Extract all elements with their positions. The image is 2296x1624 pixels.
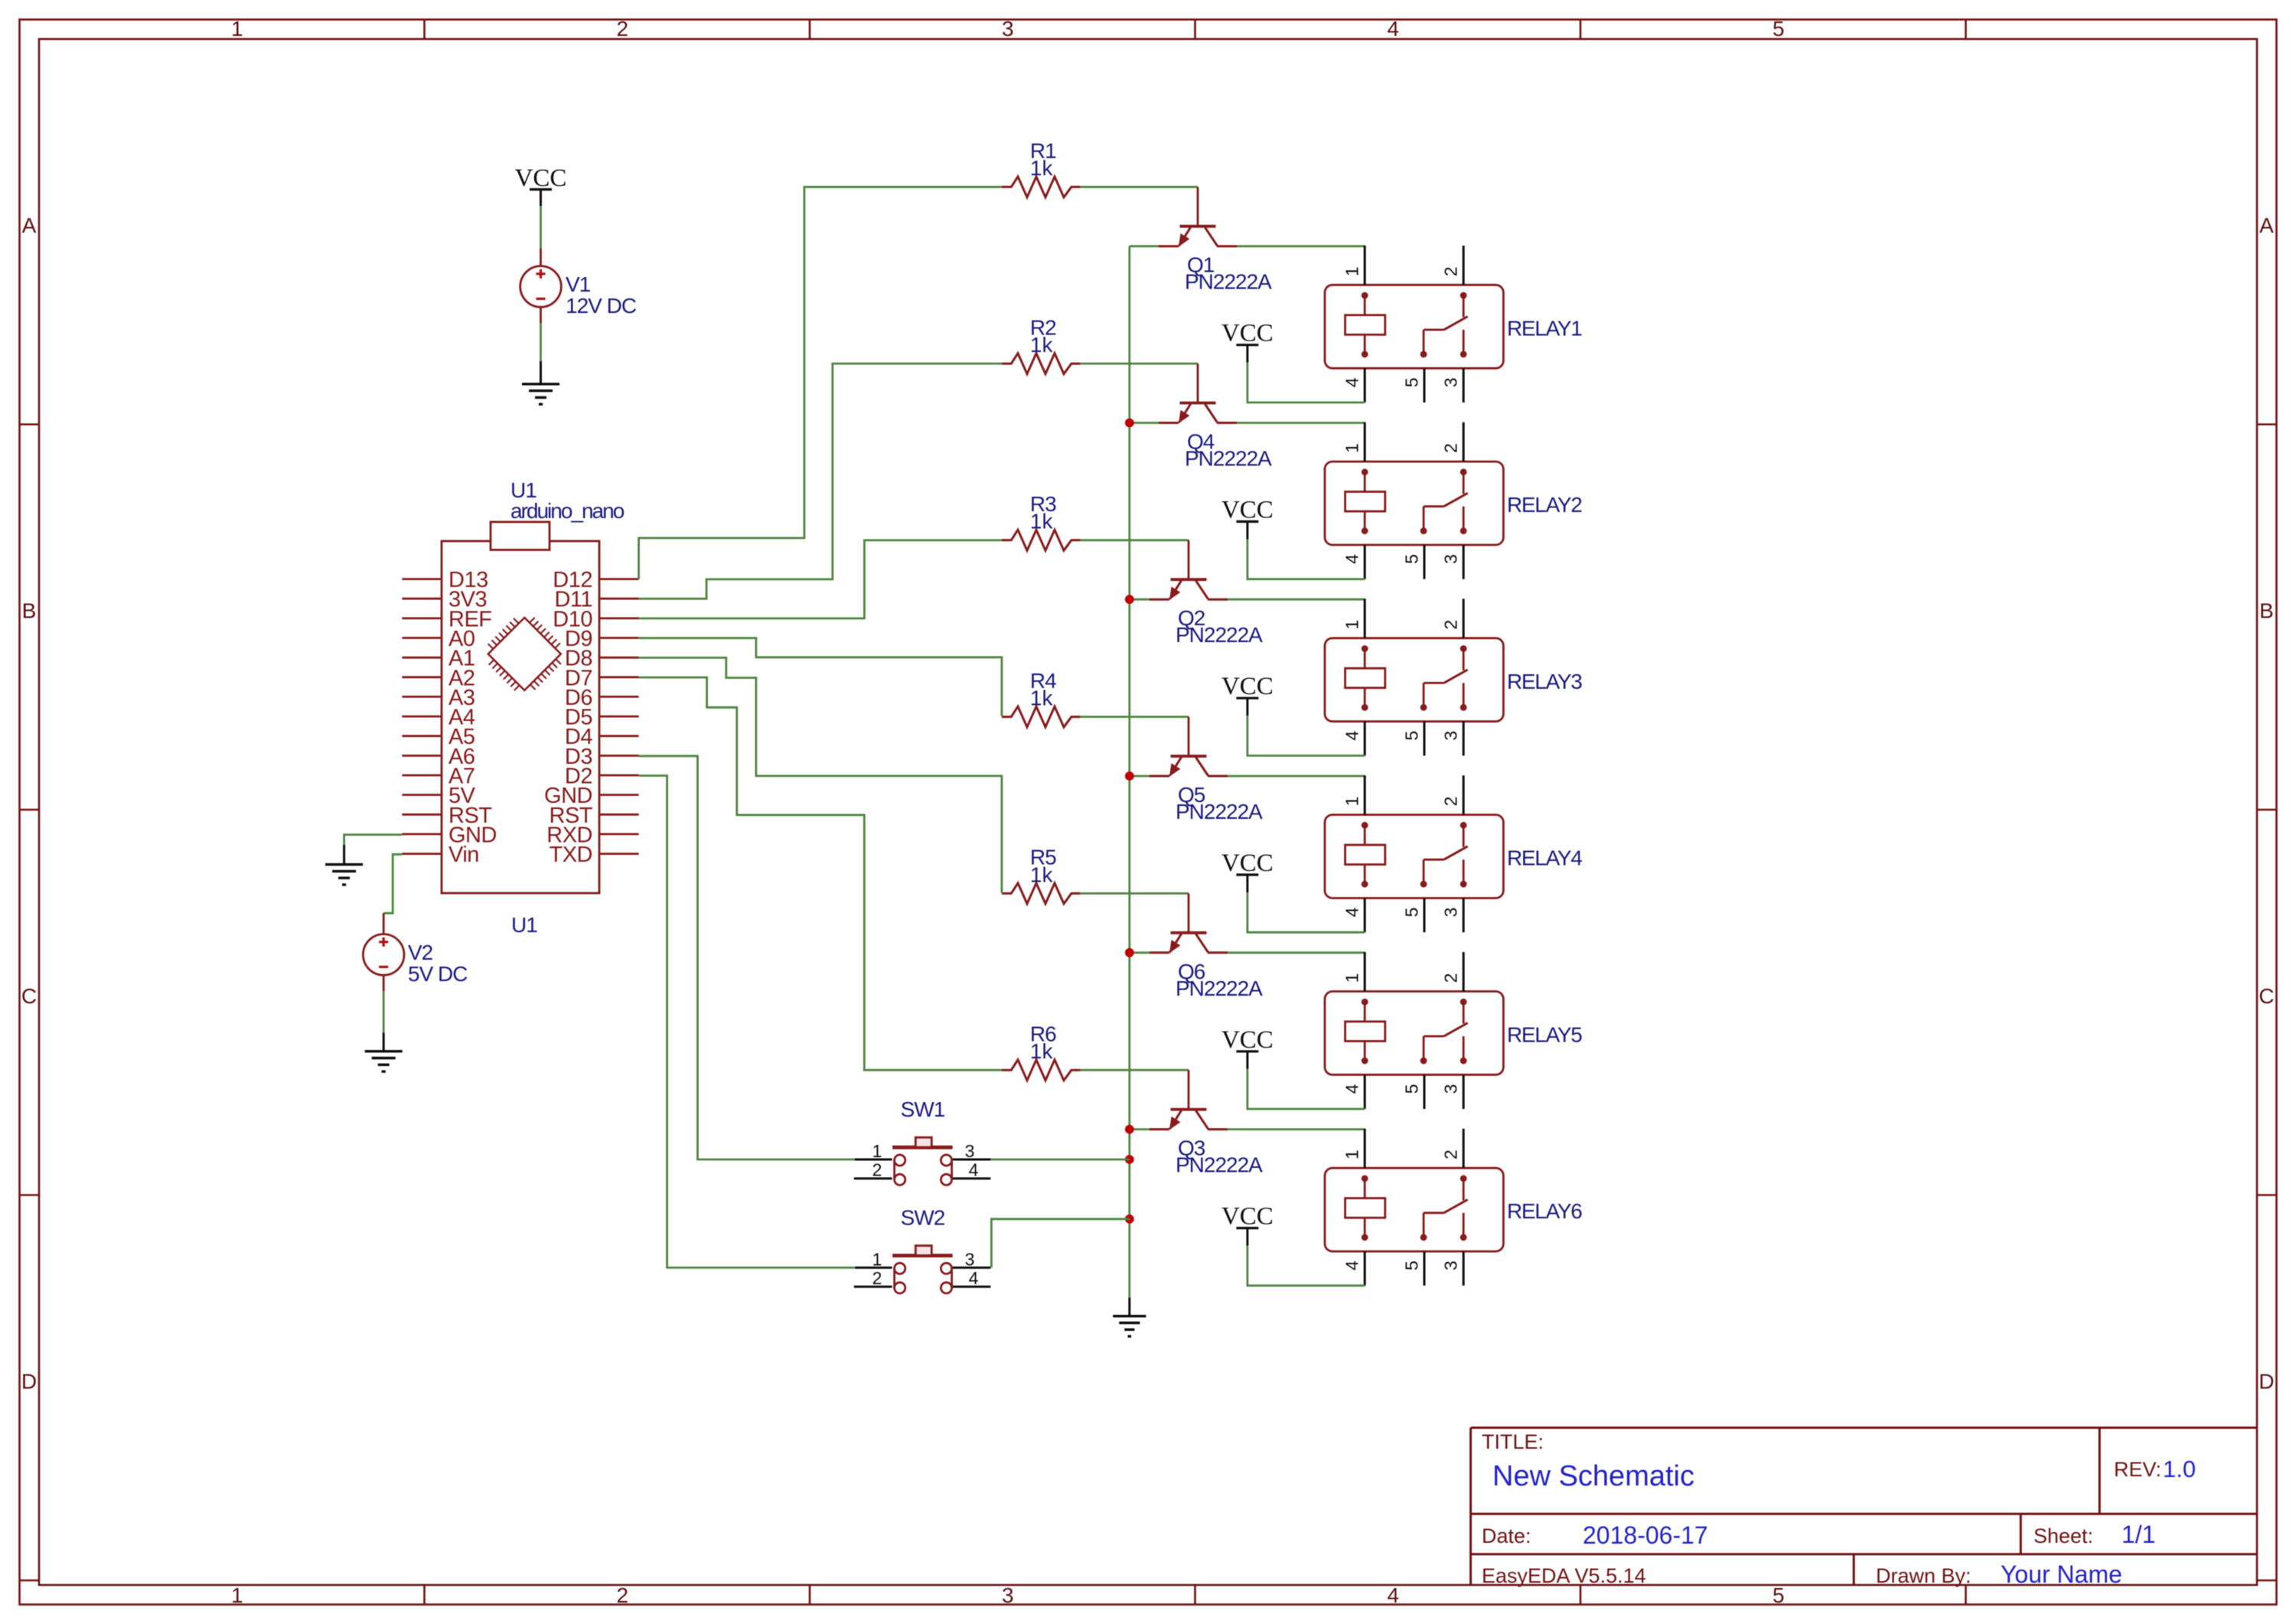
net flag VCC (relay 6) [1221, 1203, 1274, 1246]
RELAY1 pin 2 [1463, 246, 1465, 285]
svg-text:2: 2 [1441, 1150, 1461, 1159]
svg-text:2: 2 [872, 1160, 882, 1180]
svg-text:3: 3 [1441, 1260, 1461, 1270]
junction SW1 pin 3 [1125, 1155, 1134, 1164]
junction Q2 emitter [1125, 595, 1134, 604]
wire VCC to RELAY3 pin 4 [1247, 716, 1365, 755]
wire D8 to R5 [639, 657, 1002, 892]
svg-text:4: 4 [1342, 1084, 1362, 1094]
relay RELAY6 [1325, 1168, 1503, 1251]
svg-text:2018-06-17: 2018-06-17 [1583, 1521, 1708, 1549]
wire VCC to RELAY2 pin 4 [1247, 540, 1365, 579]
relay RELAY3 [1325, 638, 1503, 722]
svg-text:TXD: TXD [550, 843, 593, 867]
wire R5 to Q6 base [1080, 892, 1189, 895]
wire VCC flag to V1 plus [540, 206, 542, 249]
voltage source V1 12V DC [520, 249, 562, 324]
U1 left pins [402, 579, 442, 854]
svg-text:5V DC: 5V DC [408, 962, 468, 986]
svg-text:PN2222A: PN2222A [1185, 270, 1272, 294]
net flag VCC (V1 top) [515, 165, 567, 206]
RELAY3 coil [1345, 645, 1385, 711]
svg-text:VCC: VCC [1221, 850, 1274, 877]
svg-text:1: 1 [1342, 797, 1362, 807]
wire D3 to SW1 pin 1 [639, 756, 855, 1159]
transistor Q2 PN2222A (NPN) [1150, 540, 1228, 600]
SW2 button cap [892, 1246, 953, 1256]
svg-text:3: 3 [1441, 731, 1461, 741]
RELAY3 pin 4 [1364, 722, 1366, 756]
svg-text:4: 4 [1342, 377, 1362, 387]
svg-text:PN2222A: PN2222A [1176, 800, 1263, 823]
ground symbol V1 [522, 361, 559, 404]
wire SW1 pin 3 to bus [990, 1159, 1129, 1161]
svg-text:12V DC: 12V DC [566, 294, 637, 318]
wire bus to Q1 emitter [1130, 245, 1159, 247]
wire Q6 collector to RELAY5 pin 1 [1228, 951, 1365, 954]
ground symbol GND (U1) [325, 845, 363, 885]
resistor R6 1k [1002, 1060, 1081, 1081]
SW1 pin 4 [953, 1177, 991, 1179]
svg-text:5: 5 [1401, 1260, 1421, 1270]
svg-text:VCC: VCC [1221, 497, 1274, 524]
svg-text:2: 2 [1441, 797, 1461, 807]
wire D9 to R4 [639, 638, 1002, 716]
transistor Q3 PN2222A (NPN) [1150, 1070, 1228, 1130]
svg-text:U1: U1 [511, 913, 537, 937]
wire D11 to R2 [639, 364, 1002, 598]
IC U1 arduino_nano body [442, 522, 599, 893]
svg-text:1: 1 [231, 1583, 243, 1607]
svg-text:New Schematic: New Schematic [1492, 1460, 1694, 1492]
ground symbol V2 [365, 1032, 403, 1071]
wire Q3 collector to RELAY6 pin 1 [1228, 1128, 1365, 1130]
RELAY6 pin 2 [1463, 1129, 1465, 1168]
title block [1471, 1428, 2257, 1586]
svg-text:1k: 1k [1030, 1039, 1054, 1063]
svg-text:1: 1 [231, 17, 243, 41]
svg-text:1/1: 1/1 [2122, 1521, 2155, 1548]
frame row labels left [21, 214, 37, 1394]
RELAY1 switch contact [1420, 292, 1468, 358]
RELAY2 pin 1 [1364, 422, 1366, 461]
svg-text:5: 5 [1401, 731, 1421, 741]
RELAY3 switch contact [1420, 645, 1468, 711]
svg-text:1: 1 [1342, 443, 1362, 453]
RELAY2 coil [1345, 468, 1385, 534]
svg-text:4: 4 [969, 1268, 979, 1288]
svg-text:1: 1 [872, 1141, 882, 1161]
svg-text:5: 5 [1773, 17, 1785, 41]
transistor Q4 PN2222A (NPN) [1159, 364, 1237, 423]
wire D2 to SW2 pin 1 [639, 776, 855, 1268]
svg-text:1k: 1k [1030, 510, 1054, 533]
SW2 pin 2 [854, 1286, 892, 1288]
svg-text:1k: 1k [1030, 863, 1054, 886]
net flag VCC (relay 4) [1221, 850, 1274, 892]
wire R2 to Q4 base [1080, 363, 1198, 365]
svg-text:3: 3 [1441, 554, 1461, 564]
RELAY3 pin 1 [1364, 598, 1366, 638]
net flag VCC (relay 3) [1221, 673, 1274, 716]
svg-text:1k: 1k [1030, 686, 1054, 710]
RELAY5 pin 5 [1424, 1075, 1426, 1109]
RELAY3 pin 2 [1463, 598, 1465, 638]
RELAY1 coil [1345, 292, 1385, 358]
RELAY2 pin 3 [1463, 545, 1465, 579]
svg-text:2: 2 [1441, 443, 1461, 453]
RELAY1 pin 4 [1364, 368, 1366, 403]
svg-text:VCC: VCC [1221, 1026, 1274, 1054]
wire bus to Q3 emitter [1130, 1128, 1150, 1130]
U1 chip icon [488, 618, 561, 690]
resistor R1 1k [1002, 177, 1081, 197]
relay RELAY2 [1325, 461, 1503, 545]
svg-text:3: 3 [1002, 1583, 1014, 1607]
svg-text:3: 3 [965, 1249, 975, 1269]
wire bus to Q5 emitter [1130, 775, 1150, 778]
RELAY5 pin 1 [1364, 952, 1366, 991]
junction Q4 emitter [1125, 419, 1134, 428]
wire R4 to Q5 base [1080, 716, 1189, 718]
RELAY6 coil [1345, 1176, 1385, 1241]
svg-text:2: 2 [1441, 266, 1461, 276]
U1 right pins [599, 579, 639, 854]
relay RELAY1 [1325, 285, 1503, 368]
SW2 pin 1 [855, 1267, 892, 1269]
svg-text:4: 4 [1342, 731, 1362, 741]
svg-text:3: 3 [1441, 908, 1461, 918]
U1 right pin names [544, 568, 593, 867]
resistor R4 1k [1002, 706, 1081, 727]
svg-text:RELAY3: RELAY3 [1507, 670, 1582, 693]
svg-text:PN2222A: PN2222A [1185, 447, 1272, 471]
svg-text:4: 4 [1388, 17, 1400, 41]
svg-text:SW1: SW1 [901, 1097, 945, 1121]
svg-text:2: 2 [872, 1268, 882, 1288]
svg-text:4: 4 [1342, 1260, 1362, 1270]
wire bus to Q6 emitter [1130, 951, 1150, 954]
junction SW2 pin 3 [1125, 1215, 1134, 1224]
svg-text:TITLE:: TITLE: [1482, 1430, 1544, 1453]
svg-text:3: 3 [965, 1141, 975, 1161]
RELAY5 pin 2 [1463, 952, 1465, 991]
wire SW2 pin 3 to bus [991, 1219, 1129, 1268]
RELAY2 pin 2 [1463, 422, 1465, 461]
net flag VCC (relay 5) [1221, 1026, 1274, 1069]
wire D7 to R6 [639, 677, 1002, 1070]
svg-text:1: 1 [1342, 973, 1362, 983]
transistor Q5 PN2222A (NPN) [1150, 717, 1228, 777]
RELAY5 coil [1345, 999, 1385, 1065]
svg-text:PN2222A: PN2222A [1176, 1153, 1263, 1177]
svg-text:5: 5 [1401, 377, 1421, 387]
svg-text:RELAY4: RELAY4 [1507, 846, 1582, 870]
RELAY3 pin 5 [1424, 722, 1426, 756]
net flag VCC (relay 2) [1221, 497, 1274, 540]
SW2 contacts [895, 1263, 952, 1293]
svg-text:RELAY2: RELAY2 [1507, 493, 1582, 517]
wire D10 to R3 [639, 540, 1002, 618]
wire R3 to Q2 base [1080, 539, 1189, 541]
svg-text:Vin: Vin [448, 843, 479, 867]
junction Q6 emitter [1125, 948, 1134, 957]
wire VCC to RELAY6 pin 4 [1247, 1246, 1365, 1286]
svg-text:2: 2 [617, 1583, 629, 1607]
net flag VCC (relay 1) [1221, 320, 1274, 363]
resistor R3 1k [1002, 530, 1081, 550]
wire D12 to R1 [639, 187, 1002, 579]
svg-text:Sheet:: Sheet: [2033, 1525, 2093, 1547]
svg-text:Drawn By:: Drawn By: [1876, 1564, 1971, 1587]
svg-text:2: 2 [1441, 973, 1461, 983]
svg-text:Your Name: Your Name [2001, 1560, 2122, 1588]
title block texts [1482, 1430, 2196, 1588]
SW2 pin 3 [953, 1267, 991, 1269]
RELAY2 pin 4 [1364, 545, 1366, 579]
frame column labels bottom [231, 1583, 1785, 1607]
svg-text:Date:: Date: [1482, 1525, 1531, 1547]
wire Q2 collector to RELAY3 pin 1 [1228, 598, 1365, 601]
wire R6 to Q3 base [1080, 1069, 1189, 1071]
svg-text:D: D [2258, 1369, 2274, 1393]
svg-text:PN2222A: PN2222A [1176, 623, 1263, 647]
frame row labels right [2258, 214, 2274, 1394]
wire V1 minus to ground [540, 323, 542, 361]
SW1 contacts [895, 1155, 952, 1185]
svg-text:5: 5 [1401, 1084, 1421, 1094]
svg-text:B: B [2259, 598, 2274, 622]
svg-text:RELAY1: RELAY1 [1507, 316, 1582, 340]
svg-text:VCC: VCC [1221, 1203, 1274, 1231]
svg-text:VCC: VCC [515, 165, 567, 192]
RELAY3 pin 3 [1463, 722, 1465, 756]
svg-text:2: 2 [1441, 620, 1461, 630]
svg-text:1: 1 [872, 1249, 882, 1269]
svg-text:A: A [22, 214, 37, 237]
wire V2 minus to ground [383, 991, 385, 1032]
SW1 pin 2 [854, 1177, 892, 1179]
RELAY4 pin 3 [1463, 898, 1465, 933]
svg-text:3: 3 [1441, 1084, 1461, 1094]
SW1 pin 3 [953, 1159, 991, 1161]
RELAY6 switch contact [1420, 1176, 1468, 1241]
RELAY2 pin 5 [1424, 545, 1426, 579]
transistor Q1 PN2222A (NPN) [1159, 187, 1237, 246]
wire VCC to RELAY5 pin 4 [1247, 1069, 1365, 1109]
RELAY4 pin 5 [1424, 898, 1426, 933]
svg-text:VCC: VCC [1221, 673, 1274, 700]
wire R1 to Q1 base [1080, 186, 1198, 188]
svg-text:V2: V2 [408, 941, 433, 964]
svg-text:4: 4 [1342, 907, 1362, 917]
svg-text:1: 1 [1342, 266, 1362, 276]
RELAY1 pin 5 [1424, 368, 1426, 403]
svg-text:arduino_nano: arduino_nano [510, 499, 625, 523]
wire VCC to RELAY4 pin 4 [1247, 892, 1365, 932]
svg-text:B: B [22, 598, 37, 622]
svg-text:RELAY5: RELAY5 [1507, 1022, 1582, 1046]
svg-text:C: C [2258, 984, 2274, 1008]
svg-text:VCC: VCC [1221, 320, 1274, 347]
RELAY6 pin 1 [1364, 1129, 1366, 1168]
svg-text:1k: 1k [1030, 156, 1054, 180]
RELAY4 pin 4 [1364, 898, 1366, 933]
svg-text:5: 5 [1401, 908, 1421, 918]
SW1 pin 1 [855, 1159, 892, 1161]
svg-text:4: 4 [1342, 554, 1362, 564]
ground symbol (bus) [1113, 1297, 1146, 1336]
voltage source V2 5V DC [363, 913, 404, 991]
U1 left pin names [448, 568, 497, 867]
RELAY1 pin 1 [1364, 246, 1366, 285]
RELAY5 pin 4 [1364, 1075, 1366, 1109]
svg-text:3: 3 [1002, 17, 1014, 41]
SW2 pin 4 [953, 1286, 991, 1288]
svg-text:C: C [21, 984, 37, 1008]
frame column labels top [231, 17, 1785, 41]
RELAY4 pin 1 [1364, 775, 1366, 814]
svg-text:REV:: REV: [2114, 1458, 2161, 1481]
RELAY5 pin 3 [1463, 1075, 1465, 1109]
wire Q5 collector to RELAY4 pin 1 [1228, 775, 1365, 778]
svg-text:4: 4 [969, 1160, 979, 1180]
svg-text:1.0: 1.0 [2163, 1456, 2196, 1482]
junction Q5 emitter [1125, 771, 1134, 781]
resistor R5 1k [1002, 883, 1081, 904]
svg-text:4: 4 [1388, 1583, 1400, 1607]
RELAY6 pin 3 [1463, 1251, 1465, 1286]
wire bus to Q2 emitter [1130, 598, 1150, 601]
junction Q3 emitter [1125, 1125, 1134, 1134]
svg-text:1: 1 [1342, 620, 1362, 630]
svg-text:SW2: SW2 [901, 1205, 945, 1229]
svg-text:D: D [21, 1369, 37, 1393]
svg-text:EasyEDA V5.5.14: EasyEDA V5.5.14 [1482, 1564, 1646, 1587]
RELAY4 switch contact [1420, 822, 1468, 888]
wire U1 GND to ground [344, 835, 403, 845]
RELAY2 switch contact [1420, 468, 1468, 534]
SW1 button cap [892, 1137, 953, 1147]
RELAY4 coil [1345, 822, 1385, 888]
RELAY6 pin 4 [1364, 1251, 1366, 1286]
wire Q1 collector to RELAY1 pin 1 [1237, 245, 1365, 247]
svg-text:V1: V1 [566, 272, 591, 296]
relay RELAY5 [1325, 991, 1503, 1075]
svg-text:3: 3 [1441, 377, 1461, 387]
svg-text:1: 1 [1342, 1150, 1362, 1159]
svg-text:2: 2 [617, 17, 629, 41]
RELAY4 pin 2 [1463, 775, 1465, 814]
svg-text:1k: 1k [1030, 333, 1054, 357]
RELAY1 pin 3 [1463, 368, 1465, 403]
svg-text:5: 5 [1401, 554, 1421, 564]
svg-text:PN2222A: PN2222A [1176, 977, 1263, 1000]
transistor Q6 PN2222A (NPN) [1150, 893, 1228, 953]
svg-text:5: 5 [1773, 1583, 1785, 1607]
wire ground bus [1128, 246, 1130, 1298]
RELAY5 switch contact [1420, 999, 1468, 1065]
svg-text:RELAY6: RELAY6 [1507, 1199, 1582, 1223]
resistor R2 1k [1002, 354, 1081, 374]
svg-text:A: A [2259, 214, 2274, 237]
wire Q4 collector to RELAY2 pin 1 [1237, 422, 1365, 424]
wire bus to Q4 emitter [1130, 422, 1159, 424]
wire U1 Vin to V2 [383, 854, 402, 913]
RELAY6 pin 5 [1424, 1251, 1426, 1286]
relay RELAY4 [1325, 815, 1503, 898]
wire VCC to RELAY1 pin 4 [1247, 363, 1365, 403]
